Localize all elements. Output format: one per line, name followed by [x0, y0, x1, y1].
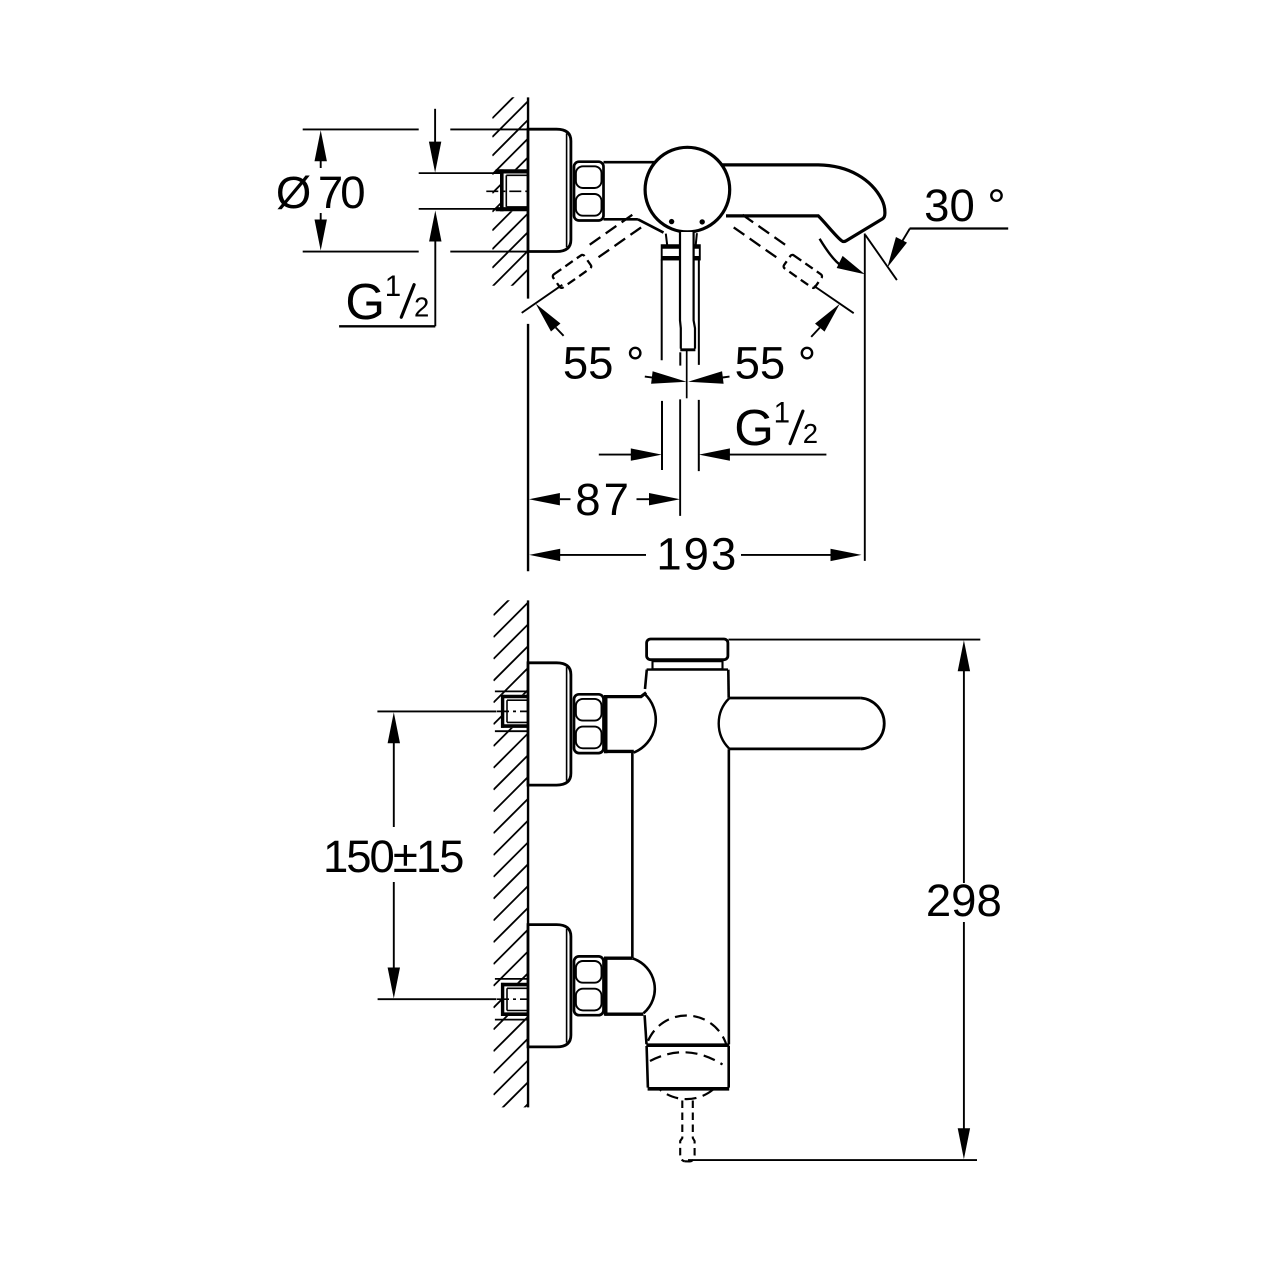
lower union top edge — [604, 957, 633, 960]
shoulder line — [647, 668, 728, 670]
upper union bottom edge — [604, 750, 634, 753]
union squares (bottom view) — [501, 695, 527, 728]
55deg extension diagonals — [522, 285, 563, 313]
hex nut upper (bottom view) — [574, 694, 604, 753]
diverter knob (dashed) — [680, 1101, 694, 1162]
wall line (top view) — [527, 97, 529, 571]
wall hatching (top view) — [492, 82, 528, 324]
shroud lines below collar — [662, 260, 699, 365]
spout vertical extension line — [864, 234, 866, 561]
svg-text:55 °: 55 ° — [563, 337, 644, 388]
supply pipes (bottom view) — [495, 691, 528, 1019]
svg-text:30 °: 30 ° — [924, 180, 1005, 231]
upper ball housing arc — [634, 694, 656, 753]
30deg underline — [910, 227, 1009, 229]
svg-text:2: 2 — [803, 418, 818, 449]
lines below convergence — [661, 401, 663, 470]
mixer body circle (top view) — [645, 147, 730, 232]
wall hatching (bottom view) — [494, 581, 529, 1139]
svg-text:193: 193 — [656, 529, 738, 580]
body left edge lower — [645, 1015, 647, 1044]
escutcheon (top view) — [528, 129, 571, 251]
dashed lever rotated right 55deg — [734, 215, 790, 261]
spout (top view) — [700, 165, 885, 242]
cartridge sleeve below body — [666, 233, 697, 245]
body left edge upper — [645, 670, 647, 689]
svg-text:G: G — [345, 273, 385, 330]
sphere equator arc (dashed) — [650, 1052, 723, 1064]
lower union thick left edge — [604, 957, 608, 1016]
svg-text:55 °: 55 ° — [735, 337, 816, 388]
body right edge upper — [727, 670, 730, 698]
dimension 298 — [729, 639, 981, 641]
convergence arrows at lever centerline — [651, 371, 687, 388]
svg-text:Ø 70: Ø 70 — [276, 167, 364, 218]
dimension 193 — [529, 549, 560, 561]
upper boss slant edge — [606, 693, 646, 697]
hex nut (top view) — [574, 162, 604, 221]
spout face angled extension — [865, 235, 897, 280]
body right edge lower — [728, 749, 731, 1044]
dimension G 1/2 (outlet) — [599, 454, 632, 456]
svg-text:1: 1 — [385, 270, 401, 303]
dots on body — [669, 219, 674, 224]
upper union thick left edge — [604, 695, 608, 753]
dimension Ø70 — [303, 128, 419, 130]
wall line (bottom view) — [527, 600, 529, 1107]
union square (top view) — [500, 169, 528, 211]
faucet body fill (bottom view) — [606, 670, 887, 1088]
diverter sphere (dashed, hidden) — [645, 1016, 729, 1100]
hex nut lower (bottom view) — [574, 956, 604, 1015]
lower union bottom edge — [605, 1013, 644, 1016]
dashed lever rotated left 55deg — [585, 215, 641, 261]
supply pipe (top view, behind wall) — [419, 173, 501, 209]
55deg leader arrows — [531, 300, 560, 332]
svg-text:87: 87 — [575, 474, 632, 525]
spout capsule (bottom view) — [719, 698, 885, 749]
lever handle rod (rest position) — [681, 232, 693, 349]
svg-text:1: 1 — [774, 396, 790, 429]
collar ring — [662, 245, 700, 259]
body left edge mid — [631, 753, 634, 958]
outlet stub lines — [679, 352, 681, 365]
lower ball housing arc — [633, 959, 655, 1014]
pipe centerline (top view) — [486, 190, 528, 192]
escutcheon upper (bottom view) — [528, 663, 571, 785]
diverter collar — [643, 1045, 732, 1088]
svg-text:G: G — [734, 399, 774, 456]
30deg leader — [894, 229, 910, 256]
lever centerline — [686, 351, 688, 398]
top cap (bottom view) — [647, 639, 728, 660]
escutcheon lower (bottom view) — [528, 925, 571, 1047]
dimension 87 — [529, 493, 560, 505]
dimension 150±15 — [377, 710, 496, 712]
G 1/2 top leader — [434, 109, 436, 144]
svg-text:150±15: 150±15 — [323, 831, 463, 882]
svg-text:2: 2 — [414, 292, 429, 323]
spout swivel arc arrow — [820, 239, 843, 267]
svg-text:298: 298 — [926, 875, 1002, 926]
S-union cylinder (top view) — [604, 162, 664, 232]
ring below cap — [653, 661, 723, 669]
